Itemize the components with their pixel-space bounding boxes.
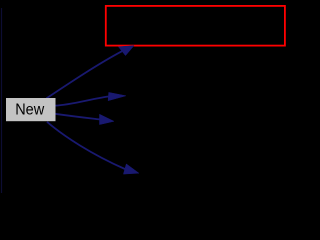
arrowhead into red box [118, 46, 134, 56]
svg-text:New: New [15, 101, 45, 118]
node: red-bordered box (truncated node) [106, 6, 285, 46]
arrowhead node 2 [108, 92, 126, 100]
arrowhead node 4 [123, 164, 139, 174]
node: New (grey filled) [6, 98, 56, 121]
wire: edge from New to red box [47, 51, 123, 98]
wire: edge from New to hidden node 4 [47, 122, 125, 169]
wire: edge from New to hidden node 3 [55, 114, 100, 120]
wire: edge from New to hidden node 2 [55, 97, 108, 106]
arrowhead node 3 [100, 114, 115, 124]
left clipped edge line [1, 8, 3, 193]
